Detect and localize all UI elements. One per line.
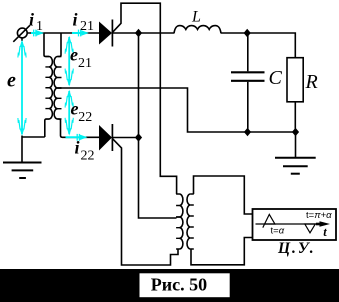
svg-text:1: 1 [36,19,43,34]
wire center tap to filter bottom rail [58,88,296,132]
wire VS2 cathode to junction [113,137,139,139]
junction dot cathode VS1 / output node [135,29,142,37]
capacitor C [231,72,265,81]
current arrow i21 [72,32,83,34]
svg-text:e: e [70,45,78,65]
junction dot C bottom node [244,128,251,136]
svg-text:i: i [29,10,34,30]
junction dot cathode VS2 node [135,133,142,141]
ground right [275,158,316,174]
svg-text:e: e [71,99,79,119]
wire pulse transformer primary bottom lead to CU [191,238,253,265]
wire top main (source to thyristor VS1 anode) [27,32,99,34]
wire VS1 gate loop down to pulse transformer w1 top [112,3,176,194]
svg-text:R: R [305,71,318,93]
junction dot R bottom / ground node [292,128,299,136]
wire capacitor top stem [247,33,249,71]
current arrow i1 [31,32,39,34]
pulse transformer T2 primary winding [187,194,190,249]
control unit CU box [253,209,337,240]
pulse at t=pi+alpha (down triangle) [305,224,316,233]
ground left [3,163,42,179]
svg-text:L: L [191,9,201,26]
svg-text:21: 21 [78,56,92,71]
time axis with arrow [256,223,325,225]
svg-text:22: 22 [78,110,92,125]
wire resistor bottom stem [294,102,296,132]
svg-text:t: t [323,225,327,239]
wire secondary bottom lead to VS2 anode [58,119,100,137]
svg-text:t=π+α: t=π+α [306,210,332,221]
current arrow i22 [66,136,83,138]
wire capacitor bottom stem [247,82,249,132]
wire source bottom lead stub [21,38,23,41]
pulse transformer T2 gate winding upper [180,194,183,217]
svg-text:e: e [7,70,16,92]
emf arrow e (double-headed) [21,42,23,134]
source G1 (generator circle with slash) [13,25,30,41]
wire common cathode vertical to w-mid tap [139,33,177,218]
transformer T1 primary winding [49,57,52,120]
wire source/ground/primary bottom [22,136,45,163]
wire VS2 gate loop down to pulse transformer w2 bottom [112,138,178,265]
svg-text:C: C [269,67,283,89]
emf arrow e21 (double-headed) [68,37,70,85]
wire VS1 cathode to inductor [113,32,175,34]
svg-text:22: 22 [81,149,95,164]
transformer T1 secondary winding e22 (bottom half) [54,88,57,119]
pulse transformer T2 gate winding lower [180,217,183,249]
wire primary bottom lead [45,119,49,137]
wire pulse transformer primary top lead to CU [194,176,253,214]
wire right ground stem [295,132,297,158]
transformer T1 secondary winding e21 (top half) [54,57,57,89]
thyristor VS1 [99,20,112,47]
svg-text:Ц.У.: Ц.У. [277,240,316,257]
pulse at t=alpha (up triangle) [263,214,275,227]
wire secondary top lead [58,33,62,57]
emf arrow e22 (double-headed) [68,91,70,134]
caption bar [0,269,339,302]
svg-text:i: i [73,10,78,30]
wire primary top lead [44,33,49,57]
wire inductor to R top corner [221,33,295,58]
inductor L [174,26,221,34]
thyristor VS2 [99,124,112,151]
svg-text:t=α: t=α [271,225,285,236]
junction dot L-C node [244,29,251,37]
resistor R [287,58,303,102]
svg-text:21: 21 [80,19,94,34]
svg-text:i: i [75,138,80,158]
svg-text:Рис. 50: Рис. 50 [151,275,207,295]
